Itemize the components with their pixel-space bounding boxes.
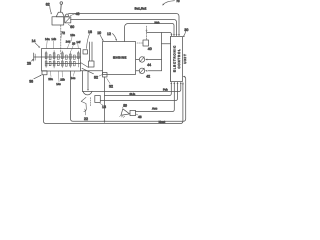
wire Se1 lever to ECU bbox=[69, 14, 180, 36]
svg-text:15e: 15e bbox=[70, 33, 75, 37]
selector box on gearbox top right bbox=[83, 50, 88, 54]
svg-text:Se1,Se2: Se1,Se2 bbox=[135, 7, 147, 11]
svg-text:15b: 15b bbox=[60, 77, 65, 81]
shift lever knob 62 bbox=[60, 2, 63, 5]
svg-text:Acc: Acc bbox=[152, 107, 158, 111]
arc pointer 70 top right bbox=[163, 1, 175, 5]
svg-text:Nout: Nout bbox=[159, 120, 166, 124]
speed sensor 36 bbox=[42, 71, 47, 75]
wire gearbox output to ECU right bbox=[71, 71, 186, 121]
svg-text:UNIT: UNIT bbox=[183, 53, 187, 63]
svg-text:72: 72 bbox=[61, 31, 65, 35]
svg-text:14e: 14e bbox=[71, 76, 76, 80]
svg-text:30: 30 bbox=[184, 28, 188, 32]
svg-text:14f: 14f bbox=[76, 40, 80, 44]
left bearing cap bbox=[33, 53, 35, 61]
svg-text:15a: 15a bbox=[48, 77, 53, 81]
svg-text:48: 48 bbox=[138, 115, 142, 119]
svg-text:ELECTRONIC: ELECTRONIC bbox=[172, 45, 176, 72]
throttle 44 bbox=[139, 57, 144, 62]
linkage diagonals bbox=[81, 63, 89, 68]
wire to 42 bbox=[148, 70, 161, 72]
svg-text:12: 12 bbox=[107, 32, 111, 36]
svg-text:14b: 14b bbox=[51, 37, 56, 41]
svg-text:18: 18 bbox=[102, 105, 106, 109]
bottom connector gearbox to engine bbox=[81, 70, 103, 72]
output sector mechanism bbox=[82, 71, 84, 92]
counter shaft bbox=[46, 63, 81, 65]
svg-text:60: 60 bbox=[70, 25, 74, 29]
clutch shafts engine to gearbox bbox=[89, 42, 91, 61]
svg-text:42: 42 bbox=[146, 74, 150, 78]
svg-text:CONTROL: CONTROL bbox=[177, 48, 181, 68]
svg-text:GLin: GLin bbox=[130, 93, 136, 96]
svg-text:ENGINE: ENGINE bbox=[113, 55, 127, 59]
engine block 12 bbox=[103, 42, 136, 75]
svg-text:Nsh: Nsh bbox=[155, 21, 160, 25]
gears bbox=[45, 51, 47, 68]
wire 52 to ECU GLin bbox=[105, 83, 172, 96]
injector 42 bbox=[139, 68, 144, 73]
svg-text:44: 44 bbox=[147, 63, 151, 67]
svg-text:14c: 14c bbox=[56, 82, 61, 86]
position sensor 18 bbox=[95, 96, 101, 103]
svg-text:16: 16 bbox=[88, 30, 92, 34]
wire 36 down to bottom bus bbox=[44, 75, 183, 124]
svg-text:25: 25 bbox=[27, 61, 31, 65]
svg-text:Psh: Psh bbox=[163, 88, 168, 91]
wire Psh top bbox=[83, 83, 181, 92]
svg-text:14d: 14d bbox=[66, 39, 71, 43]
parking lever 22 bbox=[81, 97, 86, 111]
wire 52 down to bottom bus bbox=[104, 77, 106, 121]
clutch box bbox=[89, 61, 95, 67]
label 46 bbox=[70, 14, 75, 16]
wire Se2 lever box to ECU bbox=[71, 20, 177, 36]
svg-text:40: 40 bbox=[148, 47, 152, 51]
wire to 44 bbox=[146, 59, 161, 61]
svg-text:62: 62 bbox=[46, 2, 50, 6]
svg-text:22: 22 bbox=[84, 117, 88, 121]
shift lever stem bbox=[60, 4, 63, 12]
igniter 40 bbox=[143, 40, 149, 46]
svg-text:32: 32 bbox=[109, 84, 113, 88]
ECU box 30 bbox=[171, 37, 183, 82]
pedal sensor 48 bbox=[130, 110, 136, 115]
transmission case 14 bbox=[42, 49, 81, 72]
svg-text:70: 70 bbox=[176, 0, 180, 3]
shift lever boot trapezoid bbox=[56, 12, 64, 17]
wire Acc to ECU bbox=[136, 83, 175, 112]
shift lever base box 60 bbox=[52, 17, 64, 25]
svg-text:20: 20 bbox=[72, 41, 76, 45]
wire NE engine top to ECU bbox=[125, 24, 175, 42]
input shaft bbox=[34, 56, 81, 58]
wire 18 to ECU bbox=[100, 83, 177, 101]
svg-text:50: 50 bbox=[123, 103, 127, 107]
svg-text:14a: 14a bbox=[45, 37, 50, 41]
svg-text:14: 14 bbox=[32, 39, 36, 43]
dashed link lever to transmission bbox=[60, 25, 62, 54]
svg-text:10: 10 bbox=[97, 31, 101, 35]
actuator bus bbox=[161, 33, 163, 71]
svg-text:52: 52 bbox=[94, 75, 98, 79]
leader arrow 62 bbox=[50, 6, 52, 13]
svg-text:36: 36 bbox=[29, 79, 33, 83]
detent circle unit 46 bbox=[66, 14, 69, 17]
svg-text:46: 46 bbox=[76, 12, 80, 16]
wire igniter line to ECU bbox=[147, 33, 172, 36]
accelerator pedal 50 bbox=[121, 109, 130, 115]
crank sensor 52 bbox=[103, 73, 108, 78]
